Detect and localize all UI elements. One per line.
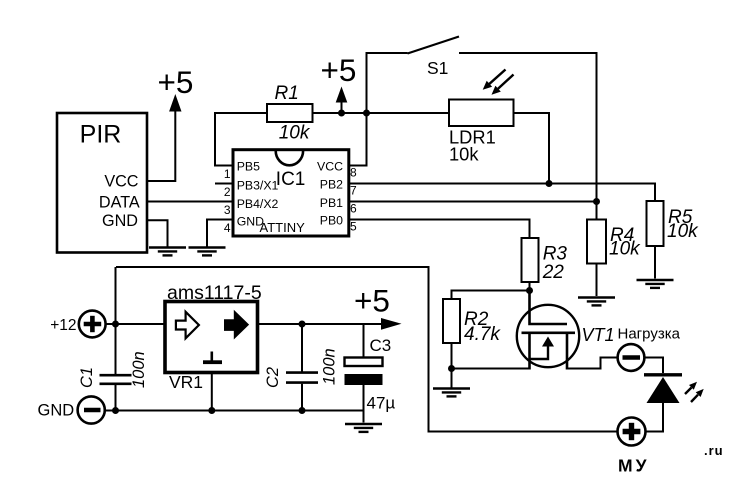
svg-text:+5: +5 (158, 64, 194, 100)
svg-text:+12: +12 (50, 317, 76, 334)
svg-text:.ru: .ru (704, 443, 724, 458)
svg-text:+5: +5 (321, 52, 357, 88)
svg-text:2: 2 (224, 185, 231, 199)
svg-text:7: 7 (350, 184, 357, 198)
svg-text:ATTINY: ATTINY (260, 220, 306, 235)
svg-text:47µ: 47µ (367, 394, 396, 413)
svg-text:1: 1 (224, 167, 231, 181)
svg-text:МУ: МУ (618, 456, 649, 476)
svg-text:PB1: PB1 (320, 196, 343, 210)
svg-text:4.7k: 4.7k (464, 324, 501, 345)
svg-text:VCC: VCC (317, 160, 343, 174)
svg-text:VCC: VCC (104, 172, 138, 190)
svg-text:C2: C2 (264, 367, 282, 388)
svg-text:3: 3 (224, 203, 231, 217)
svg-text:VT1: VT1 (582, 325, 615, 345)
svg-text:PB2: PB2 (320, 178, 343, 192)
svg-text:100n: 100n (321, 348, 339, 385)
svg-text:PB0: PB0 (320, 213, 343, 227)
svg-text:Нагрузка: Нагрузка (618, 326, 681, 343)
svg-text:PIR: PIR (80, 121, 122, 149)
svg-text:R3: R3 (543, 243, 568, 264)
svg-text:R1: R1 (275, 83, 299, 104)
svg-text:10k: 10k (279, 122, 311, 143)
svg-text:5: 5 (350, 220, 357, 234)
svg-text:+5: +5 (354, 283, 390, 319)
svg-text:22: 22 (542, 262, 565, 283)
svg-text:10k: 10k (609, 238, 641, 259)
svg-text:8: 8 (350, 166, 357, 180)
svg-text:PB4/X2: PB4/X2 (237, 197, 279, 211)
svg-text:DATA: DATA (99, 194, 140, 212)
svg-text:PB5: PB5 (237, 160, 260, 174)
svg-text:GND: GND (38, 401, 75, 419)
svg-text:ams1117-5: ams1117-5 (167, 282, 262, 304)
svg-text:GND: GND (102, 212, 138, 230)
svg-text:100n: 100n (130, 351, 148, 388)
svg-text:10k: 10k (449, 143, 479, 164)
svg-text:PB3/X1: PB3/X1 (237, 179, 279, 193)
svg-text:10k: 10k (667, 221, 699, 242)
svg-text:6: 6 (350, 202, 357, 216)
svg-text:S1: S1 (427, 58, 448, 78)
svg-text:4: 4 (224, 221, 231, 235)
svg-text:C1: C1 (78, 367, 96, 388)
svg-text:VR1: VR1 (169, 372, 203, 392)
svg-text:C3: C3 (370, 336, 392, 355)
svg-text:IC1: IC1 (276, 169, 306, 190)
